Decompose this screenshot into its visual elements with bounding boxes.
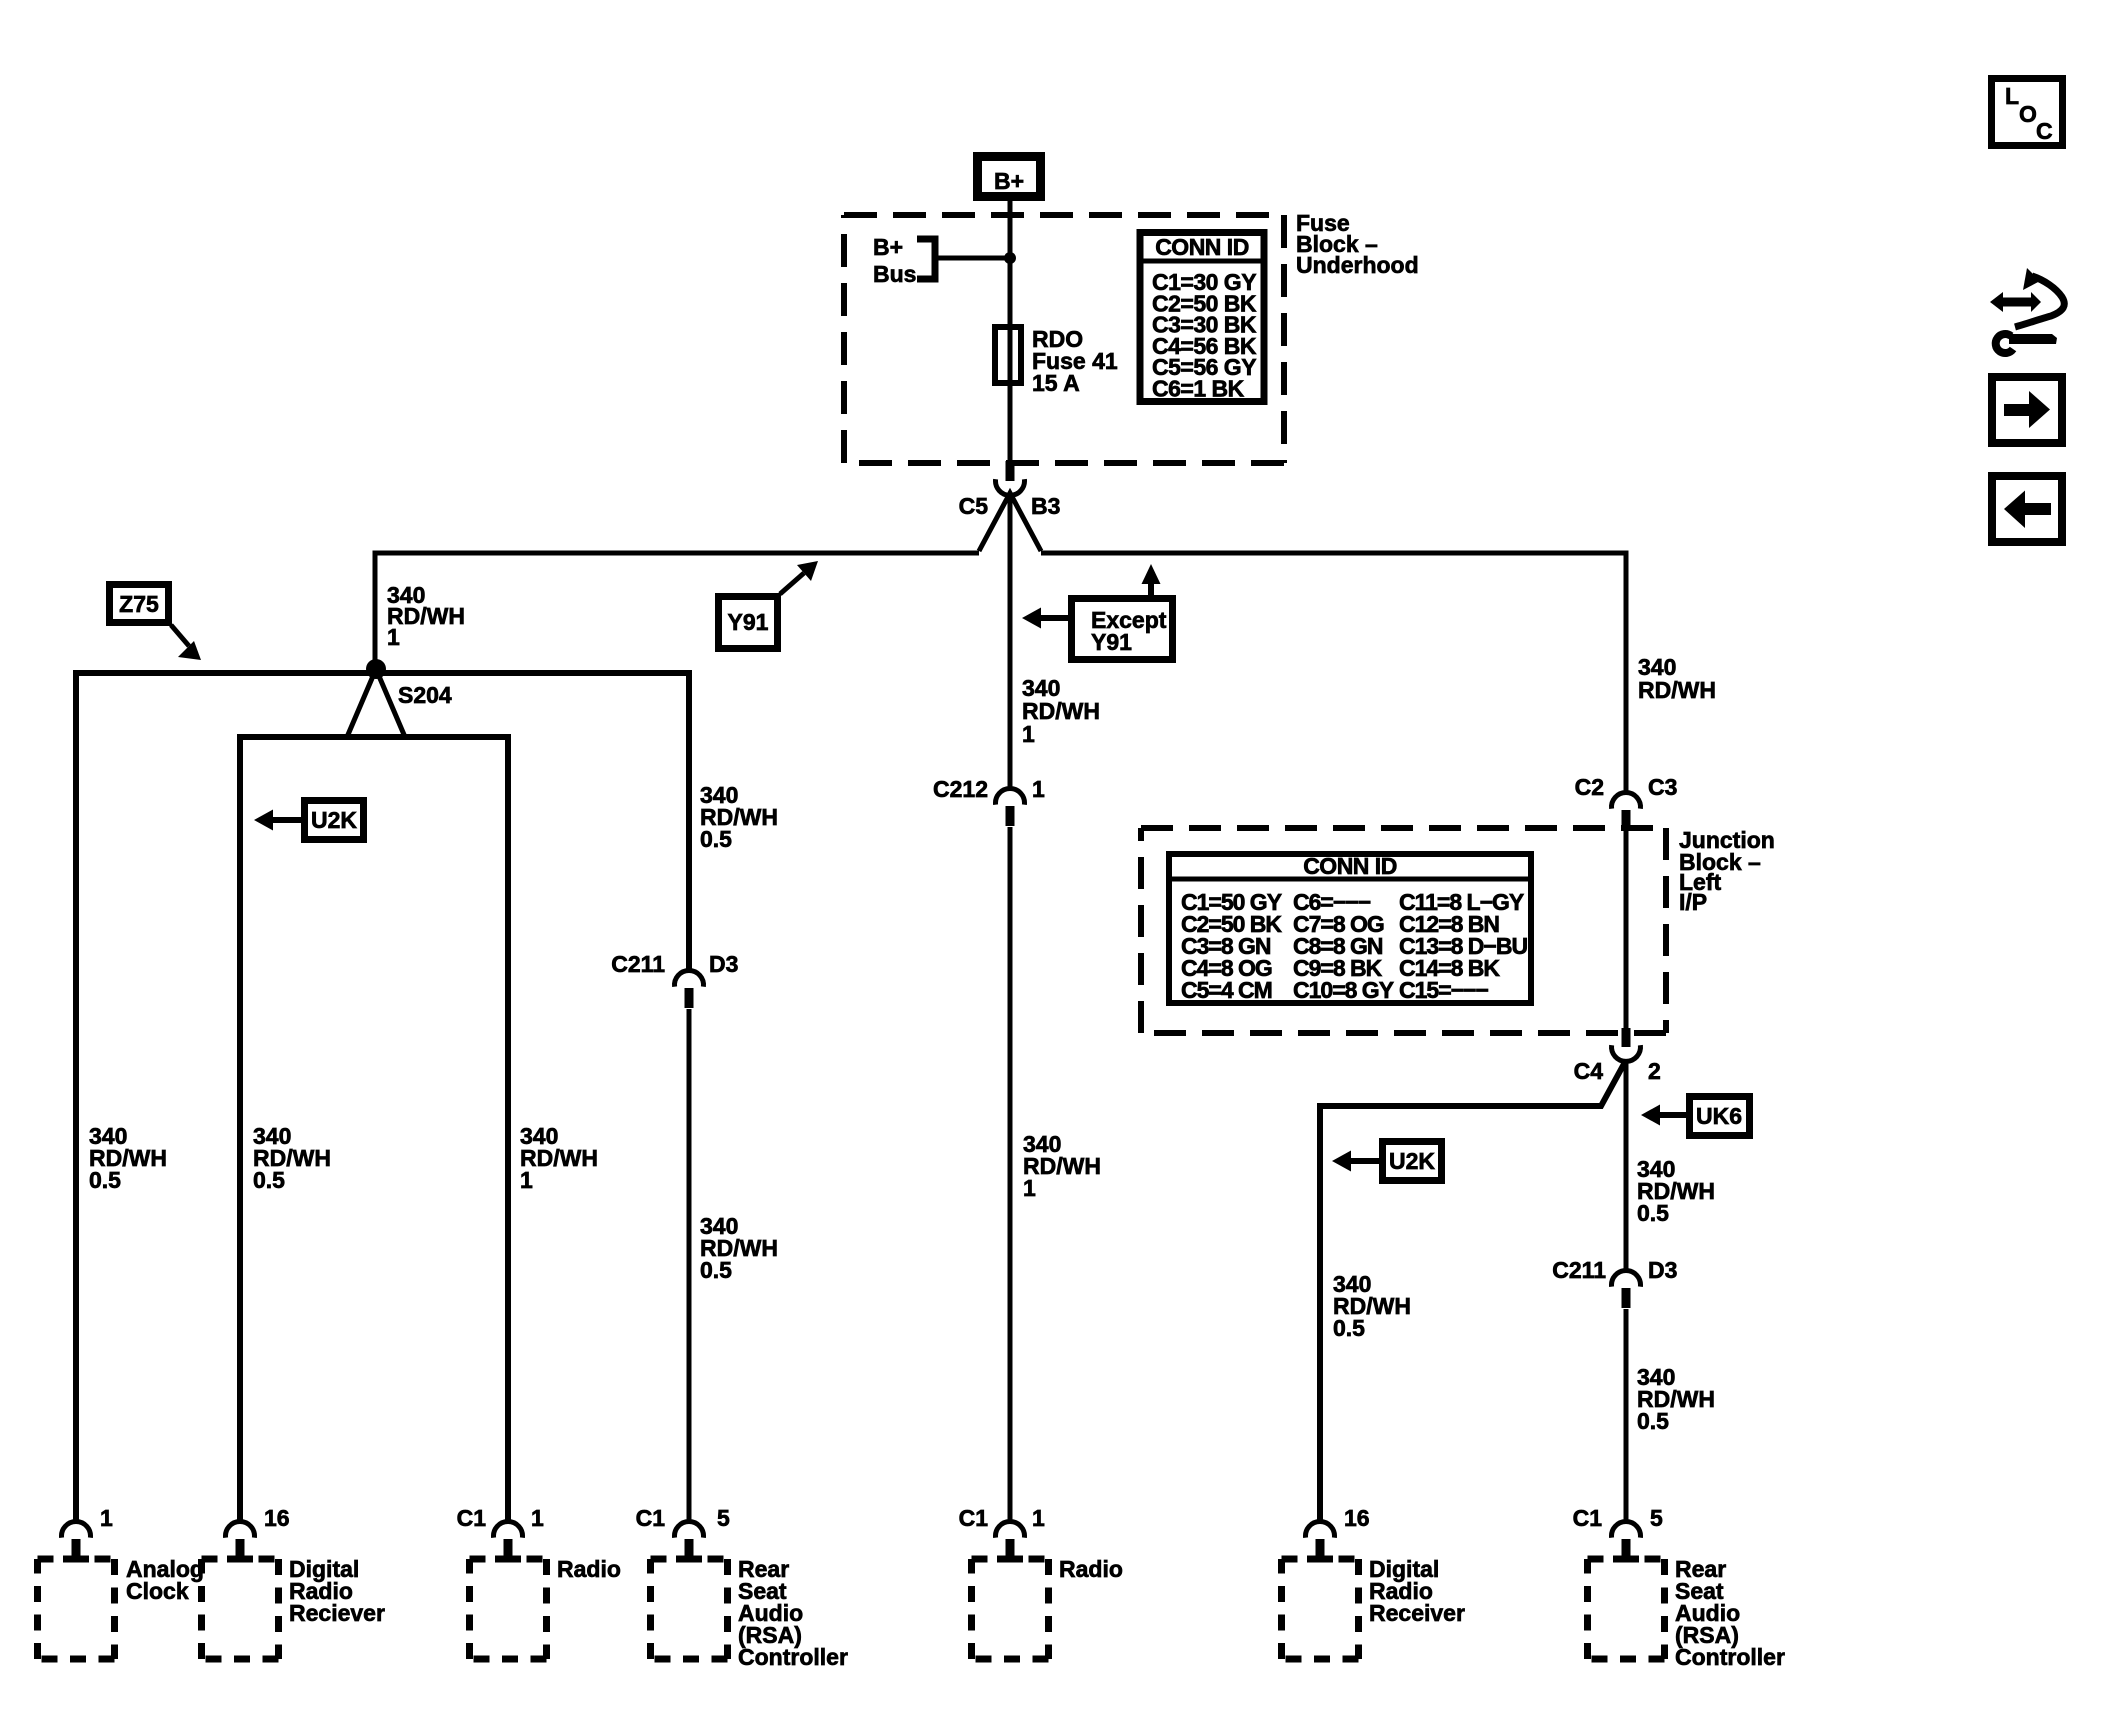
wire lower horizontal to analog clock and RSA bbox=[76, 673, 689, 1524]
rear seat audio controller box (left) bbox=[651, 1556, 848, 1671]
connector pin 1 (analog clock) bbox=[61, 1505, 113, 1559]
junction dot bbox=[1004, 252, 1016, 264]
svg-text:C1: C1 bbox=[457, 1505, 487, 1531]
icon arrow left box bbox=[1992, 476, 2062, 542]
svg-text:0.5: 0.5 bbox=[1637, 1200, 1669, 1226]
power symbol B+ bbox=[978, 157, 1041, 197]
svg-text:Clock: Clock bbox=[126, 1578, 189, 1604]
svg-text:L: L bbox=[2005, 83, 2019, 109]
svg-text:1: 1 bbox=[1032, 776, 1045, 802]
digital radio reciever box bbox=[202, 1556, 385, 1660]
svg-text:0.5: 0.5 bbox=[700, 826, 732, 852]
wire S204 bus to digital radio and radio bbox=[240, 737, 508, 1524]
wire label 340 RD/WH (right branch) bbox=[1638, 654, 1716, 703]
wire label 340 RD/WH 1 (S204 feed) bbox=[387, 582, 465, 650]
connector C211 D3 (left) bbox=[611, 951, 738, 1008]
rear seat audio controller box (right) bbox=[1588, 1556, 1785, 1671]
B+ Bus label bbox=[873, 234, 916, 287]
wire label 340 RD/WH 0.5 (RSA right) bbox=[1637, 1364, 1715, 1434]
svg-text:C3: C3 bbox=[1648, 774, 1677, 800]
label box U2K (right) bbox=[1383, 1142, 1442, 1181]
svg-text:RD/WH: RD/WH bbox=[1638, 677, 1716, 703]
arrow UK6 bbox=[1659, 1112, 1686, 1118]
connector C1 pin 5 (RSA right) bbox=[1573, 1505, 1663, 1559]
svg-text:0.5: 0.5 bbox=[253, 1167, 285, 1193]
arrow U2K right bbox=[1350, 1158, 1379, 1164]
connector C5/B3 bbox=[959, 461, 1061, 519]
label box UK6 bbox=[1690, 1097, 1750, 1136]
svg-text:Y91: Y91 bbox=[728, 609, 769, 635]
svg-text:5: 5 bbox=[1650, 1505, 1663, 1531]
conn id table (junction block) bbox=[1166, 853, 1534, 1003]
svg-text:1: 1 bbox=[1022, 721, 1035, 747]
wire to RSA right bbox=[1624, 1309, 1629, 1524]
svg-text:C1: C1 bbox=[959, 1505, 989, 1531]
svg-text:1: 1 bbox=[520, 1167, 533, 1193]
arrow left Except Y91 bbox=[1040, 615, 1068, 621]
svg-text:C6=1 BK: C6=1 BK bbox=[1152, 376, 1245, 402]
fuse block label bbox=[1296, 210, 1419, 278]
wire main horizontal right + drop to C2 bbox=[1041, 553, 1626, 795]
wire label 340 RD/WH 0.5 (UK6 branch) bbox=[1637, 1156, 1715, 1226]
connector C1 pin 5 (RSA left) bbox=[636, 1505, 730, 1559]
wire label 340 RD/WH 1 (radio left) bbox=[520, 1123, 598, 1193]
wire C4 to C211 (right) bbox=[1624, 1062, 1629, 1273]
label box U2K (left) bbox=[305, 801, 364, 840]
B+ Bus bracket bbox=[917, 239, 935, 279]
junction block label bbox=[1679, 827, 1775, 915]
label box Except Y91 bbox=[1072, 599, 1173, 660]
svg-text:1: 1 bbox=[1032, 1505, 1045, 1531]
svg-text:5: 5 bbox=[717, 1505, 730, 1531]
label box Z75 bbox=[110, 585, 169, 623]
svg-text:B+: B+ bbox=[873, 234, 903, 260]
wire trunk upper bbox=[1008, 493, 1013, 791]
svg-text:U2K: U2K bbox=[311, 807, 357, 833]
svg-text:16: 16 bbox=[1344, 1505, 1370, 1531]
splice S204 bbox=[347, 659, 452, 737]
svg-text:D3: D3 bbox=[709, 951, 738, 977]
wire branch to digital radio receiver bbox=[1320, 1062, 1625, 1524]
wire main horizontal left + drop to S204 bbox=[375, 553, 979, 664]
svg-text:C: C bbox=[2036, 118, 2053, 144]
svg-text:Receiver: Receiver bbox=[1369, 1600, 1465, 1626]
arrow up Except Y91 bbox=[1148, 582, 1154, 595]
svg-text:S204: S204 bbox=[398, 682, 452, 708]
svg-text:Controller: Controller bbox=[738, 1644, 848, 1670]
svg-text:Reciever: Reciever bbox=[289, 1600, 385, 1626]
wire label 340 RD/WH 0.5 (digital radio) bbox=[253, 1123, 331, 1193]
arrow Y91 bbox=[780, 573, 804, 594]
svg-text:1: 1 bbox=[387, 624, 400, 650]
connector C1 pin 1 (radio) bbox=[959, 1505, 1045, 1559]
svg-text:U2K: U2K bbox=[1389, 1148, 1435, 1174]
wire B+ feed bbox=[1008, 197, 1013, 463]
svg-text:Underhood: Underhood bbox=[1296, 252, 1419, 278]
svg-text:C5: C5 bbox=[959, 493, 989, 519]
connector C211 D3 (right) bbox=[1552, 1257, 1677, 1308]
svg-text:15 A: 15 A bbox=[1032, 370, 1080, 396]
svg-text:Y91: Y91 bbox=[1091, 629, 1132, 655]
wire trunk lower bbox=[1008, 827, 1013, 1524]
svg-text:C4: C4 bbox=[1574, 1058, 1604, 1084]
svg-text:C212: C212 bbox=[933, 776, 988, 802]
wire label 340 RD/WH 1 (center lower) bbox=[1023, 1131, 1101, 1201]
radio box bbox=[972, 1556, 1123, 1660]
svg-text:C211: C211 bbox=[611, 951, 665, 977]
svg-text:CONN ID: CONN ID bbox=[1155, 234, 1249, 260]
digital radio receiver box (right) bbox=[1282, 1556, 1465, 1660]
wire bus tap bbox=[935, 256, 1010, 261]
junction block dashed box bbox=[1141, 828, 1666, 1033]
connector C1 pin 1 (radio left column) bbox=[457, 1505, 544, 1559]
svg-text:C1: C1 bbox=[1573, 1505, 1603, 1531]
icon arrow right box bbox=[1992, 377, 2062, 443]
svg-text:C211: C211 bbox=[1552, 1257, 1606, 1283]
svg-text:C10=8 GY: C10=8 GY bbox=[1293, 977, 1394, 1003]
svg-text:0.5: 0.5 bbox=[89, 1167, 121, 1193]
svg-text:UK6: UK6 bbox=[1696, 1103, 1742, 1129]
svg-text:0.5: 0.5 bbox=[1637, 1408, 1669, 1434]
svg-text:1: 1 bbox=[100, 1505, 113, 1531]
wire label 340 RD/WH 0.5 (RSA left) bbox=[700, 1213, 778, 1283]
wire label 340 RD/WH 0.5 (digital radio right) bbox=[1333, 1271, 1411, 1341]
svg-text:B+: B+ bbox=[994, 168, 1024, 194]
svg-text:0.5: 0.5 bbox=[1333, 1315, 1365, 1341]
wire label 340 RD/WH 0.5 (analog clock) bbox=[89, 1123, 167, 1193]
svg-text:1: 1 bbox=[1023, 1175, 1036, 1201]
svg-text:Controller: Controller bbox=[1675, 1644, 1785, 1670]
svg-text:O: O bbox=[2019, 101, 2037, 127]
fuse RDO Fuse 41 15 A bbox=[995, 326, 1118, 396]
svg-text:16: 16 bbox=[264, 1505, 290, 1531]
svg-text:0.5: 0.5 bbox=[700, 1257, 732, 1283]
icon double arrow with hook and wrench bbox=[1990, 268, 2064, 353]
wire branch diagonals at C5/B3 bbox=[979, 493, 1041, 551]
wire C211 to RSA bbox=[687, 1009, 692, 1524]
svg-text:Z75: Z75 bbox=[119, 591, 159, 617]
arrow Z75 bbox=[171, 625, 189, 646]
svg-text:I/P: I/P bbox=[1679, 889, 1707, 915]
svg-text:D3: D3 bbox=[1648, 1257, 1677, 1283]
svg-text:B3: B3 bbox=[1031, 493, 1060, 519]
label box Y91 bbox=[719, 597, 778, 649]
wire label 340 RD/WH 0.5 (C211 feed) bbox=[700, 782, 778, 852]
radio box (left column) bbox=[470, 1556, 621, 1660]
wire through junction block bbox=[1624, 829, 1629, 1028]
connector pin 16 (digital radio reciever) bbox=[226, 1505, 290, 1559]
svg-text:Bus: Bus bbox=[873, 261, 916, 287]
analog clock box bbox=[38, 1556, 204, 1660]
svg-text:C2: C2 bbox=[1575, 774, 1604, 800]
connector pin 16 (digital radio receiver right) bbox=[1306, 1505, 1370, 1559]
svg-text:C15=−−−: C15=−−− bbox=[1399, 977, 1488, 1003]
svg-text:Radio: Radio bbox=[557, 1556, 621, 1582]
wire label 340 RD/WH 1 (center upper) bbox=[1022, 675, 1100, 747]
arrow U2K left bbox=[272, 817, 301, 823]
connector C212 pin 1 bbox=[933, 776, 1045, 826]
connector C2 C3 bbox=[1575, 774, 1678, 830]
svg-text:CONN ID: CONN ID bbox=[1303, 853, 1397, 879]
connector C4 pin 2 bbox=[1574, 1028, 1661, 1084]
conn id table (fuse block) bbox=[1137, 233, 1267, 402]
svg-text:C5=4 CM: C5=4 CM bbox=[1181, 977, 1272, 1003]
svg-text:Radio: Radio bbox=[1059, 1556, 1123, 1582]
svg-text:1: 1 bbox=[531, 1505, 544, 1531]
fuse block underhood dashed box bbox=[844, 215, 1284, 463]
svg-text:2: 2 bbox=[1648, 1058, 1661, 1084]
svg-text:C1: C1 bbox=[636, 1505, 666, 1531]
icon LOC bbox=[1992, 79, 2063, 146]
